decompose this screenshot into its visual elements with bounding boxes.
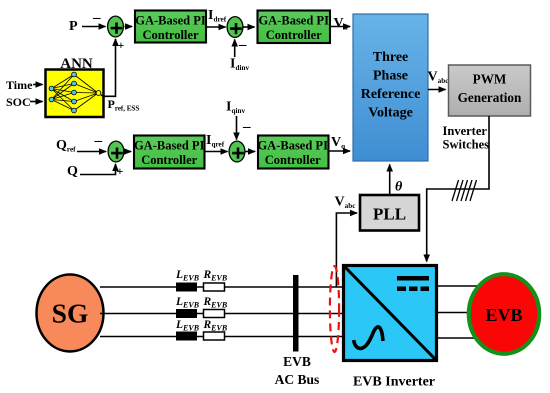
svg-text:REVB: REVB xyxy=(203,296,228,310)
svg-text:+: + xyxy=(118,38,125,52)
svg-text:EVB: EVB xyxy=(485,305,522,325)
svg-text:Iqref: Iqref xyxy=(206,133,225,149)
svg-text:Voltage: Voltage xyxy=(368,106,413,121)
svg-text:GA-Based PI: GA-Based PI xyxy=(257,139,328,153)
svg-text:AC Bus: AC Bus xyxy=(275,372,320,387)
svg-text:PWM: PWM xyxy=(473,71,507,86)
svg-text:P: P xyxy=(69,19,78,34)
svg-text:Inverter: Inverter xyxy=(443,124,488,138)
svg-text:Phase: Phase xyxy=(373,69,408,84)
svg-text:–: – xyxy=(94,133,103,149)
svg-text:LEVB: LEVB xyxy=(175,269,200,283)
svg-text:Iqinv: Iqinv xyxy=(226,100,245,116)
svg-text:Switches: Switches xyxy=(443,138,490,152)
svg-text:EVB: EVB xyxy=(283,354,311,369)
svg-text:Vabc: Vabc xyxy=(335,195,357,211)
svg-text:GA-Based PI: GA-Based PI xyxy=(258,14,329,28)
svg-text:Pref, ESS: Pref, ESS xyxy=(108,97,140,112)
svg-text:Idref: Idref xyxy=(208,8,227,24)
svg-text:Q: Q xyxy=(67,164,78,179)
svg-text:–: – xyxy=(238,37,247,53)
svg-text:GA-Based PI: GA-Based PI xyxy=(135,14,206,28)
svg-text:Vd: Vd xyxy=(334,16,348,32)
svg-text:Vq: Vq xyxy=(331,135,345,151)
svg-text:SG: SG xyxy=(52,298,89,329)
svg-text:Vabc: Vabc xyxy=(428,70,450,86)
svg-text:REVB: REVB xyxy=(203,269,228,283)
svg-text:Idinv: Idinv xyxy=(230,57,249,73)
svg-text:GA-Based PI: GA-Based PI xyxy=(134,139,205,153)
svg-text:Reference: Reference xyxy=(361,87,421,102)
svg-text:θ: θ xyxy=(395,180,403,195)
svg-text:LEVB: LEVB xyxy=(175,319,200,333)
svg-text:REVB: REVB xyxy=(203,319,228,333)
svg-text:–: – xyxy=(242,119,251,135)
svg-text:Controller: Controller xyxy=(141,153,197,167)
svg-text:Time: Time xyxy=(6,78,33,92)
svg-text:Generation: Generation xyxy=(458,90,522,105)
svg-text:Controller: Controller xyxy=(266,28,322,42)
svg-text:Qref: Qref xyxy=(56,138,76,154)
svg-text:Three: Three xyxy=(373,50,409,65)
svg-text:Controller: Controller xyxy=(142,28,198,42)
svg-text:LEVB: LEVB xyxy=(175,296,200,310)
svg-text:Controller: Controller xyxy=(265,153,321,167)
svg-text:EVB Inverter: EVB Inverter xyxy=(353,375,435,390)
svg-text:+: + xyxy=(117,164,124,178)
svg-text:–: – xyxy=(92,10,101,26)
svg-text:SOC: SOC xyxy=(6,95,31,109)
svg-text:PLL: PLL xyxy=(373,205,406,224)
